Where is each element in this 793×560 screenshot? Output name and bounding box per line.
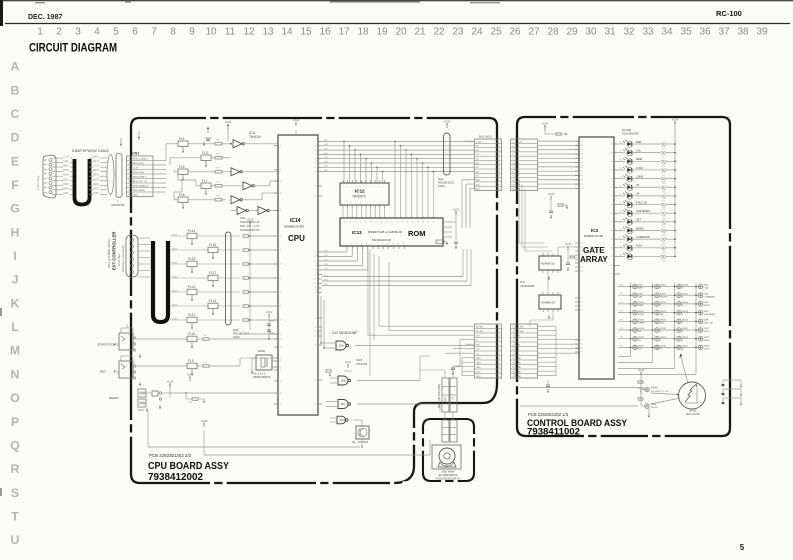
svg-text:5: 5 <box>113 27 119 38</box>
svg-text:20: 20 <box>391 222 393 224</box>
svg-text:D: D <box>11 131 20 145</box>
svg-text:MIN4: MIN4 <box>93 174 99 177</box>
svg-text:P2: P2 <box>581 251 583 253</box>
svg-text:MIN3: MIN3 <box>172 276 178 278</box>
svg-text:GND: GND <box>444 396 447 402</box>
svg-text:10kΩ: 10kΩ <box>233 335 240 339</box>
svg-text:SW30: SW30 <box>660 346 667 348</box>
svg-text:GND: GND <box>517 367 522 369</box>
svg-text:1: 1 <box>374 202 375 204</box>
ext cable loop thick <box>153 241 168 322</box>
svg-text:35: 35 <box>581 162 583 164</box>
svg-text:74HC00: 74HC00 <box>356 362 367 366</box>
LED COMMAND <box>618 238 625 240</box>
svg-text:F: F <box>11 178 19 192</box>
svg-text:12: 12 <box>243 27 255 38</box>
svg-text:13: 13 <box>262 27 274 38</box>
svg-text:MSM80C51RS: MSM80C51RS <box>284 225 304 229</box>
svg-text:CM/M: CM/M <box>636 174 643 178</box>
svg-text:1: 1 <box>383 187 384 189</box>
svg-text:MSM27C128 or LA8784-03: MSM27C128 or LA8784-03 <box>368 230 402 234</box>
svg-text:P2: P2 <box>581 310 583 312</box>
svg-text:A: A <box>11 60 20 74</box>
svg-text:ENCL.SE: ENCL.SE <box>636 200 647 204</box>
svg-text:3: 3 <box>75 27 81 38</box>
svg-text:12: 12 <box>280 278 282 280</box>
switch SW27 SW27 <box>698 328 703 333</box>
svg-text:21: 21 <box>315 167 317 169</box>
svg-text:11: 11 <box>225 27 236 38</box>
svg-text:12: 12 <box>280 381 282 383</box>
svg-text:P2: P2 <box>581 348 583 350</box>
svg-text:60: 60 <box>611 144 613 146</box>
svg-text:PCB 2292351202 2/2: PCB 2292351202 2/2 <box>436 477 461 481</box>
filter FL15 <box>208 247 218 253</box>
svg-text:RE SW: RE SW <box>517 331 524 333</box>
resistor array RA1 <box>444 133 451 175</box>
svg-text:START: START <box>638 322 646 325</box>
svg-text:21: 21 <box>315 270 317 272</box>
switch SW21 E-3 <box>633 345 638 350</box>
svg-text:MIN4: MIN4 <box>63 187 69 190</box>
svg-text:1: 1 <box>351 202 352 204</box>
svg-text:GATE: GATE <box>583 246 605 255</box>
svg-text:SW24: SW24 <box>660 311 667 313</box>
svg-text:GND: GND <box>476 367 481 369</box>
arrow encoder to matrix <box>681 357 688 383</box>
resistor stack R near FL8 <box>215 199 222 201</box>
pull-up resistor column <box>249 223 251 226</box>
svg-text:SW13: SW13 <box>682 320 689 322</box>
svg-text:1: 1 <box>383 202 384 204</box>
svg-text:21: 21 <box>315 261 317 263</box>
caps right of BUS2 <box>547 380 549 384</box>
svg-text:+5.2V: +5.2V <box>517 141 523 143</box>
svg-text:8: 8 <box>382 244 383 246</box>
svg-text:SW23: SW23 <box>660 320 667 322</box>
svg-text:20: 20 <box>620 211 622 213</box>
svg-text:29: 29 <box>566 27 578 38</box>
grid column numbers 1-39 <box>37 27 768 38</box>
svg-text:MIN5 (DATA 1): MIN5 (DATA 1) <box>133 176 147 179</box>
svg-text:KBR4000MT1: KBR4000MT1 <box>253 375 271 379</box>
svg-text:SLN-36VD3F: SLN-36VD3F <box>622 132 639 136</box>
LED SUB MEMO <box>618 212 625 214</box>
svg-text:1: 1 <box>351 187 352 189</box>
switch matrix rows from IC2 <box>618 286 701 288</box>
svg-text:U: U <box>11 533 20 547</box>
svg-text:SW28: SW28 <box>704 337 711 339</box>
svg-text:+5.2V: +5.2V <box>201 419 208 423</box>
svg-text:EG 9080/9007S: EG 9080/9007S <box>439 473 458 477</box>
wires gates region verticals <box>369 250 371 376</box>
svg-text:21: 21 <box>315 380 317 382</box>
switch SW24 INC <box>655 310 660 315</box>
bus junction dots on address bus <box>343 141 345 143</box>
wires BUS1 left fanout <box>322 140 475 142</box>
switch SW17 9 <box>655 302 660 307</box>
svg-text:REC: REC <box>100 370 107 374</box>
svg-text:CAL: CAL <box>636 148 642 152</box>
ic2 left pins <box>575 141 583 354</box>
wires filters routing <box>165 144 167 161</box>
svg-text:DEC. 1987: DEC. 1987 <box>28 14 62 21</box>
svg-text:12: 12 <box>280 146 282 148</box>
svg-text:GND: GND <box>93 192 99 195</box>
svg-text:1: 1 <box>346 244 347 246</box>
svg-text:H: H <box>11 225 20 239</box>
switch SW18 START <box>633 319 638 324</box>
svg-text:18: 18 <box>357 27 369 38</box>
svg-text:1: 1 <box>360 187 361 189</box>
svg-text:36: 36 <box>699 27 711 38</box>
LED CAL <box>618 152 625 154</box>
gate array IC2 <box>579 137 614 379</box>
svg-text:12: 12 <box>403 244 405 246</box>
wires bus drops to ROM top <box>394 142 396 219</box>
svg-text:FUNC: FUNC <box>636 166 643 170</box>
svg-text:52: 52 <box>611 213 613 215</box>
svg-text:28: 28 <box>432 222 434 224</box>
svg-text:21: 21 <box>315 154 317 156</box>
svg-text:SW14: SW14 <box>682 302 689 304</box>
svg-text:37: 37 <box>718 27 730 38</box>
svg-text:+5.2V: +5.2V <box>167 379 174 383</box>
connector CN2 body <box>126 235 138 277</box>
svg-text:CN2 (2.5 MINI JACK): CN2 (2.5 MINI JACK) <box>107 239 111 268</box>
svg-text:+5.2V: +5.2V <box>444 119 451 123</box>
wire cpu bottom left <box>273 338 275 340</box>
svg-text:PCB 2292351202 1/3: PCB 2292351202 1/3 <box>528 412 569 417</box>
svg-text:GND: GND <box>63 160 69 163</box>
svg-text:24: 24 <box>620 177 622 179</box>
connector BUS No.1 control side <box>511 139 538 191</box>
svg-text:21: 21 <box>315 163 317 165</box>
svg-text:4: 4 <box>94 27 100 38</box>
LED BAR <box>618 143 625 145</box>
svg-text:37: 37 <box>581 171 583 173</box>
svg-text:MIN2: MIN2 <box>63 183 69 186</box>
svg-text:25: 25 <box>620 168 622 170</box>
svg-text:21: 21 <box>315 252 317 254</box>
svg-text:40: 40 <box>581 184 583 186</box>
svg-text:21: 21 <box>315 150 317 152</box>
svg-text:53: 53 <box>611 204 613 206</box>
svg-text:CPU: CPU <box>288 234 305 243</box>
cable wire labels right of loop <box>89 157 93 159</box>
LED FUNC <box>618 169 625 171</box>
switch SW6 CAL <box>633 293 638 298</box>
svg-text:14: 14 <box>281 27 293 38</box>
svg-text:21: 21 <box>315 318 317 320</box>
svg-text:+5.2V: +5.2V <box>548 192 555 196</box>
svg-text:MAIN MOTOR (8H2): MAIN MOTOR (8H2) <box>437 384 441 408</box>
motor board outline <box>423 419 474 481</box>
svg-text:GND: GND <box>517 376 522 378</box>
power +5.2V for IC11 <box>227 126 229 130</box>
svg-text:12: 12 <box>280 334 282 336</box>
svg-text:15: 15 <box>300 27 312 38</box>
svg-text:FL11: FL11 <box>188 313 195 317</box>
wires BUS2 left fanout <box>379 325 475 327</box>
svg-text:16: 16 <box>370 222 372 224</box>
svg-text:8: 8 <box>170 27 176 38</box>
ground above CN1 <box>120 138 122 142</box>
LED MEM <box>618 160 625 162</box>
cable wires with labels <box>52 157 63 159</box>
svg-text:28: 28 <box>620 142 622 144</box>
svg-text:SW40: SW40 <box>651 387 658 390</box>
svg-text:4MHz: 4MHz <box>258 349 266 353</box>
svg-text:+5.2V: +5.2V <box>672 117 679 121</box>
wire P05-P07 long runs right <box>322 276 463 278</box>
svg-text:12: 12 <box>280 236 282 238</box>
filter FL10 <box>187 336 197 342</box>
svg-text:+5.2V: +5.2V <box>247 217 254 221</box>
svg-text:1: 1 <box>356 187 357 189</box>
svg-text:Front View: Front View <box>117 254 121 266</box>
svg-text:P2: P2 <box>581 271 583 273</box>
svg-text:GND: GND <box>517 358 522 360</box>
svg-text:SW8: SW8 <box>704 320 710 322</box>
svg-text:22: 22 <box>401 222 403 224</box>
svg-text:I: I <box>13 249 16 263</box>
svg-text:24: 24 <box>471 27 483 38</box>
svg-text:47: 47 <box>611 256 613 258</box>
svg-text:50: 50 <box>611 230 613 232</box>
svg-text:MIN3 (GND): MIN3 (GND) <box>133 163 144 165</box>
svg-text:PCB 2292351202 2/3: PCB 2292351202 2/3 <box>149 453 192 458</box>
svg-text:SW25: SW25 <box>682 328 689 330</box>
switch SW16 7 <box>677 284 682 289</box>
svg-text:IC2: IC2 <box>591 228 599 233</box>
svg-text:1: 1 <box>365 202 366 204</box>
svg-text:GND: GND <box>517 363 522 365</box>
vcc mid-left <box>189 378 191 381</box>
svg-text:15: 15 <box>365 222 367 224</box>
svg-text:MIN5: MIN5 <box>93 169 99 172</box>
svg-text:21: 21 <box>315 141 317 143</box>
svg-text:SW1: SW1 <box>704 285 710 287</box>
svg-text:MIN5: MIN5 <box>172 304 178 306</box>
filter FL11 <box>187 317 197 323</box>
svg-text:HC4066 1/3: HC4066 1/3 <box>541 301 555 305</box>
svg-text:+5.2V: +5.2V <box>266 310 273 314</box>
svg-text:P2: P2 <box>581 352 583 354</box>
svg-text:MEM: MEM <box>638 305 643 307</box>
svg-text:BAR: BAR <box>636 140 641 144</box>
svg-text:CLK: CLK <box>517 336 522 338</box>
svg-text:+5.2V: +5.2V <box>63 156 70 159</box>
svg-text:33: 33 <box>581 154 583 156</box>
svg-text:1: 1 <box>347 187 348 189</box>
svg-text:BSI: BSI <box>476 345 480 347</box>
switch SW29 SW29 <box>698 345 703 350</box>
svg-text:27: 27 <box>620 151 622 153</box>
svg-text:12: 12 <box>280 193 282 195</box>
svg-text:1: 1 <box>374 187 375 189</box>
svg-text:24: 24 <box>412 222 414 224</box>
svg-text:74HC573: 74HC573 <box>352 195 366 199</box>
switch SW26 3 <box>677 336 682 341</box>
svg-text:SW31: SW31 <box>660 285 667 287</box>
svg-text:GND: GND <box>476 358 481 360</box>
svg-text:9: 9 <box>189 27 195 38</box>
ic2 right pins <box>610 144 620 276</box>
switch SW27 6 <box>677 345 682 350</box>
switch SW5 SUB MEMO <box>698 310 703 315</box>
svg-text:FL1: FL1 <box>179 137 185 141</box>
svg-text:13: 13 <box>354 222 356 224</box>
outline chain gaps <box>206 116 210 120</box>
svg-text:58: 58 <box>611 161 613 163</box>
svg-text:2: 2 <box>56 27 62 38</box>
svg-text:ROM: ROM <box>408 229 426 238</box>
svg-text:48: 48 <box>611 248 613 250</box>
svg-text:SW27: SW27 <box>704 331 711 333</box>
svg-text:CPU BOARD ASSY: CPU BOARD ASSY <box>148 461 229 472</box>
switch SW12 5 <box>677 310 682 315</box>
svg-text:21: 21 <box>315 256 317 258</box>
svg-text:MIN1: MIN1 <box>93 187 99 190</box>
vcc near BUS1 <box>544 127 546 130</box>
filter FL9 <box>187 363 197 369</box>
svg-text:GND/FFBD: GND/FFBD <box>111 203 124 207</box>
svg-text:21: 21 <box>315 336 317 338</box>
wires IC2 left mid pins <box>556 297 579 299</box>
svg-text:P2: P2 <box>581 302 583 304</box>
svg-text:4: 4 <box>361 244 362 246</box>
svg-text:10: 10 <box>392 244 394 246</box>
svg-text:IC13: IC13 <box>352 230 362 235</box>
filter FL8 <box>178 197 188 203</box>
svg-text:21: 21 <box>315 158 317 160</box>
svg-text:MIN0: MIN0 <box>63 174 69 177</box>
svg-text:COMMAND: COMMAND <box>636 235 650 239</box>
svg-text:P2: P2 <box>581 243 583 245</box>
svg-text:30: 30 <box>581 141 583 143</box>
caps at right edge <box>723 379 741 381</box>
svg-text:1: 1 <box>360 202 361 204</box>
svg-text:SW5: SW5 <box>704 311 710 313</box>
vertical drops bus to IC12 <box>343 142 345 184</box>
switch SW28 1 <box>655 328 660 333</box>
svg-text:5: 5 <box>740 543 745 552</box>
wire bottom bus 1 <box>148 446 360 448</box>
switch SW25 2 <box>677 328 682 333</box>
wire address bus A0-A7 <box>322 141 475 143</box>
svg-text:12: 12 <box>280 367 282 369</box>
svg-text:5: 5 <box>366 244 367 246</box>
svg-text:+5.2V: +5.2V <box>638 386 645 390</box>
svg-text:R: R <box>11 462 20 476</box>
svg-text:SUB MEMO: SUB MEMO <box>636 209 650 213</box>
svg-text:2: 2 <box>351 244 352 246</box>
svg-text:SW11: SW11 <box>638 311 645 313</box>
switch SW40 <box>645 387 650 392</box>
connector front view (cable) <box>43 155 56 198</box>
svg-text:25: 25 <box>490 27 502 38</box>
svg-text:+5.2V: +5.2V <box>476 141 482 143</box>
svg-text:12: 12 <box>280 339 282 341</box>
svg-text:3: 3 <box>356 244 357 246</box>
svg-text:26: 26 <box>620 159 622 161</box>
svg-text:SEN1: SEN1 <box>93 183 100 186</box>
LED MEMO <box>618 230 625 232</box>
svg-text:1: 1 <box>370 187 371 189</box>
switch SW23 DEC <box>655 319 660 324</box>
wires BUS1 right fanout to IC2 <box>538 140 580 142</box>
svg-text:12: 12 <box>280 347 282 349</box>
switch SW14 4 <box>677 302 682 307</box>
gate IC15c <box>338 400 348 409</box>
svg-text:15b: 15b <box>341 379 346 383</box>
svg-text:SW26: SW26 <box>682 337 689 339</box>
svg-text:SUB MEMO: SUB MEMO <box>704 314 716 316</box>
ferrite core L (GND/FFBD) <box>107 155 114 195</box>
switch SW8 ENCL.SE <box>698 319 703 324</box>
svg-text:34: 34 <box>581 158 583 160</box>
svg-text:DEC: DEC <box>660 323 665 325</box>
svg-text:12: 12 <box>280 306 282 308</box>
svg-text:12: 12 <box>280 250 282 252</box>
svg-text:GND: GND <box>476 372 481 374</box>
svg-text:21: 21 <box>315 292 317 294</box>
gate IC15b <box>338 376 348 385</box>
transistor Q1 DTC114 <box>356 426 369 439</box>
switch SW13 6 <box>677 319 682 324</box>
svg-text:O: O <box>10 391 20 405</box>
svg-text:12: 12 <box>280 264 282 266</box>
svg-text:26: 26 <box>509 27 521 38</box>
svg-text:12: 12 <box>280 210 282 212</box>
svg-text:21: 21 <box>315 171 317 173</box>
svg-text:M: M <box>10 344 20 358</box>
resistor stack R near FL5 <box>215 171 222 173</box>
wires encoder rows to left <box>520 387 641 389</box>
svg-text:32: 32 <box>581 149 583 151</box>
wires motor connector up <box>444 370 446 378</box>
svg-text:6: 6 <box>132 27 138 38</box>
svg-text:ENTER: ENTER <box>660 296 668 298</box>
svg-text:21: 21 <box>315 331 317 333</box>
svg-text:12: 12 <box>280 404 282 406</box>
svg-text:+5.2V: +5.2V <box>133 168 139 170</box>
CPU board outline <box>131 118 497 483</box>
svg-text:11: 11 <box>344 222 346 224</box>
svg-text:G: G <box>10 202 20 216</box>
filter FL1 <box>178 141 188 147</box>
svg-text:33: 33 <box>642 27 654 38</box>
svg-text:RE SW: RE SW <box>476 327 483 329</box>
svg-text:1: 1 <box>365 187 366 189</box>
svg-text:7: 7 <box>151 27 157 38</box>
switch SW1 RE SW <box>645 404 650 409</box>
svg-text:SEN1 (A/RE): SEN1 (A/RE) <box>133 189 145 192</box>
filter FL17 <box>208 275 218 281</box>
svg-text:12: 12 <box>280 292 282 294</box>
svg-text:21: 21 <box>315 345 317 347</box>
svg-text:12: 12 <box>280 370 282 372</box>
svg-text:FL12: FL12 <box>188 285 195 289</box>
svg-text:36: 36 <box>581 167 583 169</box>
wire bottom bus 2 <box>204 454 430 456</box>
svg-text:12: 12 <box>280 320 282 322</box>
svg-text:P: P <box>11 415 19 429</box>
svg-text:21: 21 <box>315 274 317 276</box>
wire gates to motor connector <box>439 404 441 412</box>
svg-text:15a: 15a <box>339 344 344 348</box>
